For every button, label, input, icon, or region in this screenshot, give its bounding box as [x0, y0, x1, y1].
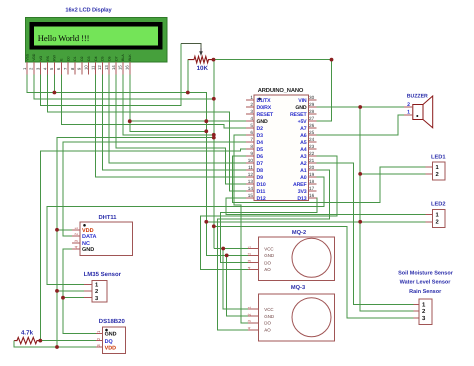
sensor U3 DS18B20 body	[102, 327, 125, 354]
junction BLK column GND tap	[128, 119, 132, 123]
wire +5V to J2 pin 3	[214, 226, 414, 317]
buzzer BZ1 symbol	[413, 96, 433, 128]
U3 pin 1 dot	[105, 329, 108, 332]
sensor U4 MQ-2 body	[259, 237, 335, 281]
svg-text:AREF: AREF	[293, 182, 307, 188]
wire LCD VO to pot wiper	[41, 44, 181, 106]
svg-text:MQ-3: MQ-3	[291, 285, 305, 291]
svg-text:D5: D5	[101, 56, 105, 60]
junction BLA on +5V rail	[212, 133, 216, 137]
svg-text:D7: D7	[257, 161, 264, 167]
wire MQ-2 AO to U1 A3	[201, 156, 337, 269]
svg-text:30: 30	[309, 95, 315, 100]
svg-text:D7: D7	[114, 56, 118, 60]
svg-text:LED1: LED1	[431, 154, 446, 160]
U1 left pin names	[257, 98, 275, 202]
svg-text:D8: D8	[257, 168, 264, 174]
wire MQ-3 DO to U1 D3	[234, 135, 248, 323]
svg-text:AO: AO	[264, 328, 271, 333]
svg-text:2: 2	[248, 253, 252, 255]
svg-text:DO: DO	[264, 260, 271, 265]
svg-text:16x2 LCD Display: 16x2 LCD Display	[65, 7, 112, 14]
junction +5V rail to J2 feed	[212, 224, 216, 228]
junction +5V corner	[330, 58, 334, 62]
junction VDD line on +5V rail	[212, 97, 216, 101]
svg-text:+5V: +5V	[298, 119, 308, 125]
svg-text:GND: GND	[295, 105, 306, 111]
svg-text:D4: D4	[257, 140, 264, 146]
svg-text:GND: GND	[105, 332, 117, 338]
svg-text:14: 14	[248, 186, 254, 191]
svg-text:8: 8	[250, 144, 253, 149]
svg-text:D6: D6	[257, 154, 264, 160]
svg-text:22: 22	[309, 151, 315, 156]
junction BLK on ground rail	[204, 129, 208, 133]
U5 sensor circle	[292, 298, 331, 337]
LCD1 screen bezel	[30, 23, 162, 50]
svg-text:VDD: VDD	[32, 53, 36, 61]
svg-text:A7: A7	[300, 126, 307, 132]
junction pot left on ground line	[186, 91, 190, 95]
U2 pin stubs	[72, 230, 80, 249]
svg-text:NC: NC	[82, 241, 90, 247]
sensor U2 DHT11 body	[80, 222, 132, 256]
svg-text:7: 7	[250, 137, 253, 142]
svg-text:2: 2	[95, 288, 98, 295]
junction MQ VCC branch	[221, 247, 225, 251]
wire +5V feed to sensor column	[57, 138, 214, 347]
wire LCD D5 to U1 D8	[102, 75, 246, 171]
svg-text:BLK: BLK	[128, 54, 132, 61]
svg-text:27: 27	[309, 116, 315, 121]
wire LED1 pin 1 to U1 D6	[233, 156, 426, 202]
junction LED1 pin2 GND	[358, 172, 362, 176]
svg-text:A4: A4	[300, 147, 307, 153]
U1 right pin names	[290, 98, 308, 202]
wire +5V rail to MQ-2 VCC	[214, 248, 248, 250]
wire ground branch to U1 GND pin4	[130, 120, 246, 122]
svg-text:DQ: DQ	[105, 339, 113, 345]
wire J2 pin 2 to ground rail	[360, 107, 413, 311]
wire LED1 pin 2 to ground rail	[360, 173, 426, 175]
junction LED2 pin2 GND	[358, 220, 362, 224]
wire +5V to LM35 pin 2	[57, 290, 84, 292]
svg-text:2: 2	[436, 218, 439, 225]
wire LCD RW pin5 drop to VSS line	[53, 75, 55, 93]
wire R1 left to VDD line	[14, 341, 96, 347]
svg-text:4.7k: 4.7k	[21, 330, 34, 337]
svg-text:6: 6	[250, 130, 253, 135]
svg-text:VIN: VIN	[298, 98, 307, 104]
wire DHT11 GND to DS18B20 GND	[63, 249, 96, 334]
svg-text:2: 2	[74, 232, 79, 235]
LED1 pin stubs	[426, 167, 433, 174]
svg-text:2: 2	[250, 102, 253, 107]
svg-text:10: 10	[248, 158, 254, 163]
svg-text:VCC: VCC	[264, 307, 273, 312]
svg-text:8: 8	[70, 67, 75, 70]
wire DQ to DS18B20	[40, 340, 96, 342]
wire +5V to DHT11 VDD	[57, 229, 72, 231]
U1 left pin stubs 1-15	[246, 100, 254, 198]
svg-text:5: 5	[49, 67, 54, 70]
svg-text:GND: GND	[264, 314, 274, 319]
svg-text:D10: D10	[257, 182, 266, 188]
J1 pin numbers 1-3	[95, 283, 99, 302]
svg-text:RS: RS	[46, 55, 50, 60]
J1 pin stubs	[84, 284, 92, 297]
U1 pin 1 indicator dot	[258, 98, 261, 101]
sensor U5 MQ-3 body	[259, 294, 335, 341]
svg-text:D11: D11	[257, 189, 266, 195]
LCD1 screen	[34, 26, 158, 45]
U1 left pin numbers	[248, 95, 254, 198]
svg-text:GND: GND	[264, 253, 274, 258]
junction DHT VDD on +5V column	[55, 228, 59, 232]
wire ground branch to LM35 pin 3	[63, 297, 84, 299]
svg-text:D3: D3	[87, 56, 91, 60]
svg-text:ARDUINO_NANO: ARDUINO_NANO	[258, 87, 304, 94]
svg-text:3: 3	[250, 109, 253, 114]
U4 pin numbers 1-4	[248, 246, 252, 269]
U5 pin names VCC GND DO AO	[264, 307, 274, 333]
svg-text:2: 2	[436, 171, 439, 178]
svg-text:D5: D5	[257, 147, 264, 153]
J2 pin numbers 1-3	[422, 302, 426, 323]
wire LCD D4 to U1 D9	[96, 75, 247, 178]
svg-text:GND: GND	[257, 119, 268, 125]
wire DHT11 DATA to U1 D4	[63, 142, 246, 236]
resistor R1 4.7k body	[14, 337, 40, 343]
U2 pin 1 dot	[83, 224, 86, 227]
wire LCD RS to U1 D11	[48, 75, 246, 192]
svg-text:D3: D3	[257, 133, 264, 139]
svg-text:RW: RW	[53, 54, 57, 60]
svg-text:D1: D1	[73, 56, 77, 60]
svg-text:11: 11	[90, 65, 95, 70]
svg-text:GND: GND	[82, 247, 94, 253]
svg-text:RESET: RESET	[257, 112, 275, 118]
svg-text:4: 4	[42, 67, 47, 70]
svg-text:4: 4	[250, 116, 253, 121]
svg-text:A6: A6	[300, 133, 307, 139]
svg-text:D0: D0	[66, 56, 70, 60]
wire LCD VSS/RW to ground rail and MQ-2 GND	[27, 75, 248, 256]
U1 right pin stubs 16-30	[309, 100, 317, 198]
wire LCD BLA to +5V rail	[123, 75, 214, 135]
svg-text:LED2: LED2	[431, 202, 446, 208]
svg-text:25: 25	[309, 130, 315, 135]
connector LED1 body	[433, 162, 445, 180]
svg-text:5: 5	[250, 123, 253, 128]
BZ1 pin numbers 2 1	[407, 102, 410, 116]
svg-text:10: 10	[83, 65, 88, 70]
wire LED2 pin 1 to U1 D12	[226, 198, 426, 214]
svg-text:D2: D2	[257, 126, 264, 132]
svg-text:2: 2	[29, 67, 34, 70]
wire MQ-3 AO to U1 A1	[218, 170, 330, 330]
junction R1 right on DQ column	[38, 339, 42, 343]
svg-text:4: 4	[248, 327, 252, 329]
svg-text:26: 26	[309, 123, 315, 128]
svg-text:17: 17	[309, 186, 315, 191]
svg-text:23: 23	[309, 144, 315, 149]
svg-text:D2: D2	[80, 56, 84, 60]
wire MQ-2 DO to U1 D13	[221, 198, 317, 263]
wire MQ GND branch to MQ-3	[227, 255, 248, 316]
svg-text:13: 13	[104, 65, 109, 70]
wire LM35 pin 1 to U1 A0	[47, 177, 324, 284]
svg-text:21: 21	[309, 158, 315, 163]
svg-text:BLA: BLA	[121, 54, 125, 61]
svg-text:15: 15	[118, 65, 123, 70]
svg-text:1: 1	[74, 226, 79, 229]
junction LM35 pin3 on ground column	[61, 296, 65, 300]
svg-text:A5: A5	[300, 140, 307, 146]
svg-text:28: 28	[309, 109, 315, 114]
svg-text:VDD: VDD	[105, 345, 116, 351]
svg-text:D9: D9	[257, 175, 264, 181]
svg-text:14: 14	[111, 65, 116, 70]
svg-text:4: 4	[74, 245, 79, 248]
svg-text:A3: A3	[300, 154, 307, 160]
svg-text:BUZZER: BUZZER	[407, 94, 428, 100]
svg-text:Rain Sensor: Rain Sensor	[409, 289, 442, 295]
wire LCD VDD to +5V rail	[34, 75, 214, 99]
svg-text:24: 24	[309, 137, 315, 142]
U4 sensor circle	[292, 238, 331, 277]
svg-text:Hello World !!!: Hello World !!!	[38, 33, 90, 43]
svg-text:1: 1	[407, 110, 410, 116]
svg-text:LM35 Sensor: LM35 Sensor	[84, 271, 122, 278]
svg-text:1: 1	[248, 306, 252, 308]
svg-text:9: 9	[250, 151, 253, 156]
U2 pin names VDD DATA NC GND	[82, 228, 96, 253]
svg-text:18: 18	[309, 179, 315, 184]
svg-text:DHT11: DHT11	[98, 215, 117, 221]
wire U1 +5V pin27 to pot	[214, 60, 332, 121]
wire LCD D6 to U1 D7	[109, 75, 246, 164]
svg-text:3: 3	[248, 260, 252, 262]
svg-text:D12: D12	[257, 196, 266, 202]
svg-text:2: 2	[248, 313, 252, 315]
junction pot right on +5V	[212, 58, 216, 62]
junction ground rail pin4 row	[204, 119, 208, 123]
potentiometer RV1 10K body	[188, 56, 214, 62]
LED1 pin numbers	[436, 165, 440, 178]
junction buzzer GND	[358, 105, 362, 109]
svg-text:16: 16	[125, 65, 130, 70]
svg-text:12: 12	[248, 172, 254, 177]
svg-text:1: 1	[22, 67, 27, 70]
svg-text:29: 29	[309, 102, 315, 107]
connector J2 soil-water-rain body	[419, 299, 432, 325]
svg-text:D1/TX: D1/TX	[257, 98, 272, 104]
svg-text:12: 12	[97, 65, 102, 70]
U3 pin stubs	[96, 333, 102, 347]
potentiometer RV1 wiper arrow	[199, 44, 203, 56]
svg-text:D13: D13	[297, 196, 306, 202]
wire LCD BLK to ground rail	[130, 75, 207, 132]
U4 pin names VCC GND DO AO	[264, 246, 274, 272]
svg-text:3: 3	[36, 67, 41, 70]
U4 pin stubs	[248, 249, 259, 270]
LED2 pin stubs	[426, 214, 433, 222]
svg-text:DATA: DATA	[82, 234, 96, 240]
wire LCD D7 to U1 D10	[116, 75, 246, 185]
svg-text:VSS: VSS	[25, 53, 29, 61]
wire LCD E to U1 D2	[61, 75, 246, 129]
svg-text:2: 2	[407, 102, 410, 108]
U5 pin stubs	[248, 309, 259, 330]
svg-text:A0: A0	[300, 175, 307, 181]
J2 pin stubs	[414, 304, 419, 318]
junction VDD line at R1 wrap	[55, 345, 59, 349]
U2 pin numbers 1-4	[74, 226, 79, 248]
U1 right pin numbers	[309, 95, 315, 198]
svg-text:A2: A2	[300, 161, 307, 167]
svg-text:6: 6	[56, 67, 61, 70]
wire pot wiper top link	[181, 44, 201, 49]
connector J1 LM35 body	[92, 280, 107, 302]
svg-text:1: 1	[96, 330, 101, 333]
svg-text:3V3: 3V3	[298, 189, 307, 195]
LCD1 pin stubs	[27, 62, 130, 75]
wire U1 GND pin29 to buzzer pin 2	[317, 106, 405, 108]
svg-text:A1: A1	[300, 168, 307, 174]
wire ground rail branch to LED2 pin 2	[206, 221, 425, 223]
junction ground rail to LED2 row	[204, 220, 208, 224]
LCD1 pin numbers 1-16	[22, 65, 130, 70]
svg-text:D0/RX: D0/RX	[257, 105, 272, 111]
svg-text:15: 15	[248, 193, 254, 198]
svg-text:3: 3	[74, 239, 79, 242]
op-amp U1 ARDUINO_NANO body	[254, 95, 309, 201]
wire one-wire DQ net R1 to U1 D5	[40, 149, 246, 341]
svg-text:MQ-2: MQ-2	[292, 230, 306, 236]
svg-text:19: 19	[309, 172, 315, 177]
svg-text:11: 11	[248, 165, 253, 170]
LCD1 16x2 LCD display module body	[25, 18, 167, 63]
junction LCD VSS-RW	[53, 91, 57, 95]
svg-text:VCC: VCC	[264, 246, 273, 251]
svg-text:1: 1	[250, 95, 253, 100]
wire +5V vertical rail	[213, 60, 215, 249]
svg-text:16: 16	[309, 193, 315, 198]
svg-text:D4: D4	[94, 56, 98, 60]
svg-text:D6: D6	[108, 56, 112, 60]
svg-text:3: 3	[248, 320, 252, 322]
connector LED2 body	[433, 209, 445, 227]
svg-text:VO: VO	[39, 56, 43, 61]
svg-text:20: 20	[309, 165, 315, 170]
LED2 pin numbers	[436, 213, 440, 226]
svg-text:13: 13	[248, 179, 254, 184]
svg-text:RESET: RESET	[290, 112, 308, 118]
svg-text:Soil Moisture Sensor: Soil Moisture Sensor	[398, 271, 454, 277]
svg-text:3: 3	[96, 344, 101, 347]
svg-text:DO: DO	[264, 321, 271, 326]
wire U1 A2 to J2 pin 1	[317, 163, 414, 304]
svg-text:7: 7	[63, 67, 68, 70]
svg-text:4: 4	[248, 267, 252, 269]
wire +5V branch to MQ-3 VCC	[223, 249, 248, 310]
junction LM35 pin2 on +5V column	[55, 289, 59, 293]
LCD1 pin name labels VSS..BLK	[25, 53, 132, 61]
svg-text:DS18B20: DS18B20	[99, 318, 126, 325]
svg-text:2: 2	[96, 337, 101, 340]
svg-text:AO: AO	[264, 267, 271, 272]
svg-text:1: 1	[248, 246, 252, 248]
BZ1 pin stubs	[404, 107, 413, 115]
svg-text:9: 9	[77, 67, 82, 70]
junction sensor +5V feed on rail	[212, 136, 216, 140]
svg-text:10K: 10K	[197, 65, 209, 72]
U3 pin names GND DQ VDD	[105, 332, 117, 352]
wire pot left terminal to ground line	[187, 60, 189, 93]
wire U1 A6 to buzzer pin 1	[317, 115, 405, 135]
svg-text:Water Level Sensor: Water Level Sensor	[400, 279, 452, 285]
U3 pin numbers 1-3	[96, 330, 101, 347]
junction MQ GND branch	[225, 254, 229, 258]
U5 pin numbers 1-4	[248, 306, 252, 329]
